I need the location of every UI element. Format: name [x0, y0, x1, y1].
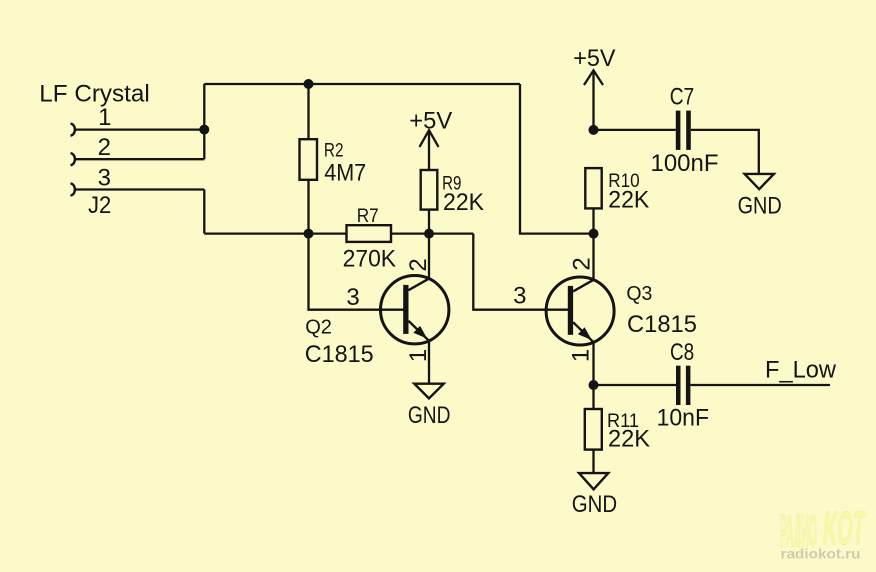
wire Q2 emitter — [428, 341, 430, 384]
power +5V arrow R10 — [584, 70, 603, 85]
wire left vertical upper — [203, 84, 205, 159]
resistor R9 — [421, 170, 438, 210]
svg-text:C8: C8 — [670, 339, 694, 366]
resistor R7 — [347, 225, 392, 242]
wire Q3 collector — [592, 234, 594, 280]
capacitor C8 — [676, 366, 690, 405]
svg-text:2: 2 — [98, 134, 111, 161]
wire C8 left — [594, 384, 677, 386]
svg-text:J2: J2 — [88, 192, 111, 219]
wire node to Q3 base — [473, 234, 568, 310]
svg-text:GND: GND — [572, 491, 617, 518]
wire R11 bottom lead — [592, 450, 594, 474]
svg-text:R7: R7 — [357, 206, 379, 227]
resistor R10 — [585, 168, 601, 208]
svg-text:C1815: C1815 — [305, 341, 374, 368]
svg-text:Q3: Q3 — [626, 282, 652, 305]
junction Q3 emitter node — [589, 380, 599, 390]
wire top bus to Q3 collector node — [520, 84, 594, 234]
connector J2 pin 3 socket — [71, 184, 75, 196]
svg-text:C7: C7 — [670, 84, 695, 111]
svg-text:1: 1 — [98, 104, 111, 131]
junction R2 top — [304, 79, 314, 89]
svg-text:270K: 270K — [343, 245, 397, 272]
wire R10 bottom lead — [592, 208, 594, 233]
wire left vertical lower — [203, 190, 205, 234]
ground R11 — [579, 473, 608, 489]
junction node R7 left — [304, 229, 314, 239]
svg-text:3: 3 — [513, 283, 526, 310]
junction C7 node — [589, 125, 599, 135]
svg-text:Q2: Q2 — [305, 316, 332, 339]
connector J2 pin 2 socket — [71, 153, 75, 165]
wire pin3 — [76, 188, 205, 190]
svg-text:C1815: C1815 — [627, 311, 697, 338]
wire pin2 — [76, 158, 205, 160]
junction Q2 collector node — [424, 229, 434, 239]
svg-text:22K: 22K — [608, 426, 650, 453]
wire pin1 — [76, 128, 205, 130]
ground C7 — [745, 174, 774, 189]
svg-text:+5V: +5V — [409, 107, 452, 134]
svg-text:3: 3 — [346, 284, 359, 311]
resistor R2 — [300, 139, 318, 180]
wire R9 bottom lead — [428, 210, 430, 234]
wire C7 right — [691, 130, 759, 174]
svg-text:GND: GND — [408, 402, 451, 429]
svg-text:+5V: +5V — [573, 45, 615, 72]
power +5V arrow R9 — [420, 130, 439, 147]
svg-text:2: 2 — [569, 257, 596, 270]
wire R11 top lead — [592, 385, 594, 409]
wire R2 bottom lead to Q2 base — [309, 180, 405, 310]
transistor Q2 — [381, 276, 449, 344]
junction Q3 collector node — [589, 229, 599, 239]
svg-text:4M7: 4M7 — [324, 159, 366, 186]
wire R2 top lead — [307, 84, 309, 139]
wire Q2 collector — [428, 234, 430, 279]
svg-text:radiokot.ru: radiokot.ru — [781, 547, 861, 562]
junction pin1 — [199, 125, 209, 135]
capacitor C7 — [676, 111, 691, 150]
wire Q3 emitter — [592, 342, 594, 385]
wire C7 left — [594, 129, 676, 131]
svg-text:2: 2 — [405, 258, 432, 271]
wire C8 right to F_Low — [690, 384, 830, 386]
ground Q2 — [414, 384, 443, 399]
transistor Q3 — [546, 277, 614, 345]
svg-text:F_Low: F_Low — [765, 357, 837, 384]
wire top bus — [204, 83, 520, 85]
wire R10 top lead — [592, 70, 594, 129]
svg-text:3: 3 — [98, 164, 111, 191]
svg-text:10nF: 10nF — [657, 405, 709, 432]
svg-text:GND: GND — [738, 192, 782, 219]
connector J2 pin 1 socket — [71, 124, 75, 136]
svg-text:1: 1 — [568, 349, 595, 362]
svg-text:22K: 22K — [443, 189, 484, 216]
wire R9 top lead — [428, 130, 430, 170]
wire node row right — [391, 232, 473, 234]
svg-text:LF Crystal: LF Crystal — [39, 81, 150, 108]
svg-text:22K: 22K — [608, 187, 649, 214]
svg-text:100nF: 100nF — [651, 150, 719, 177]
resistor R11 — [585, 409, 602, 450]
wire node row left — [204, 232, 346, 234]
